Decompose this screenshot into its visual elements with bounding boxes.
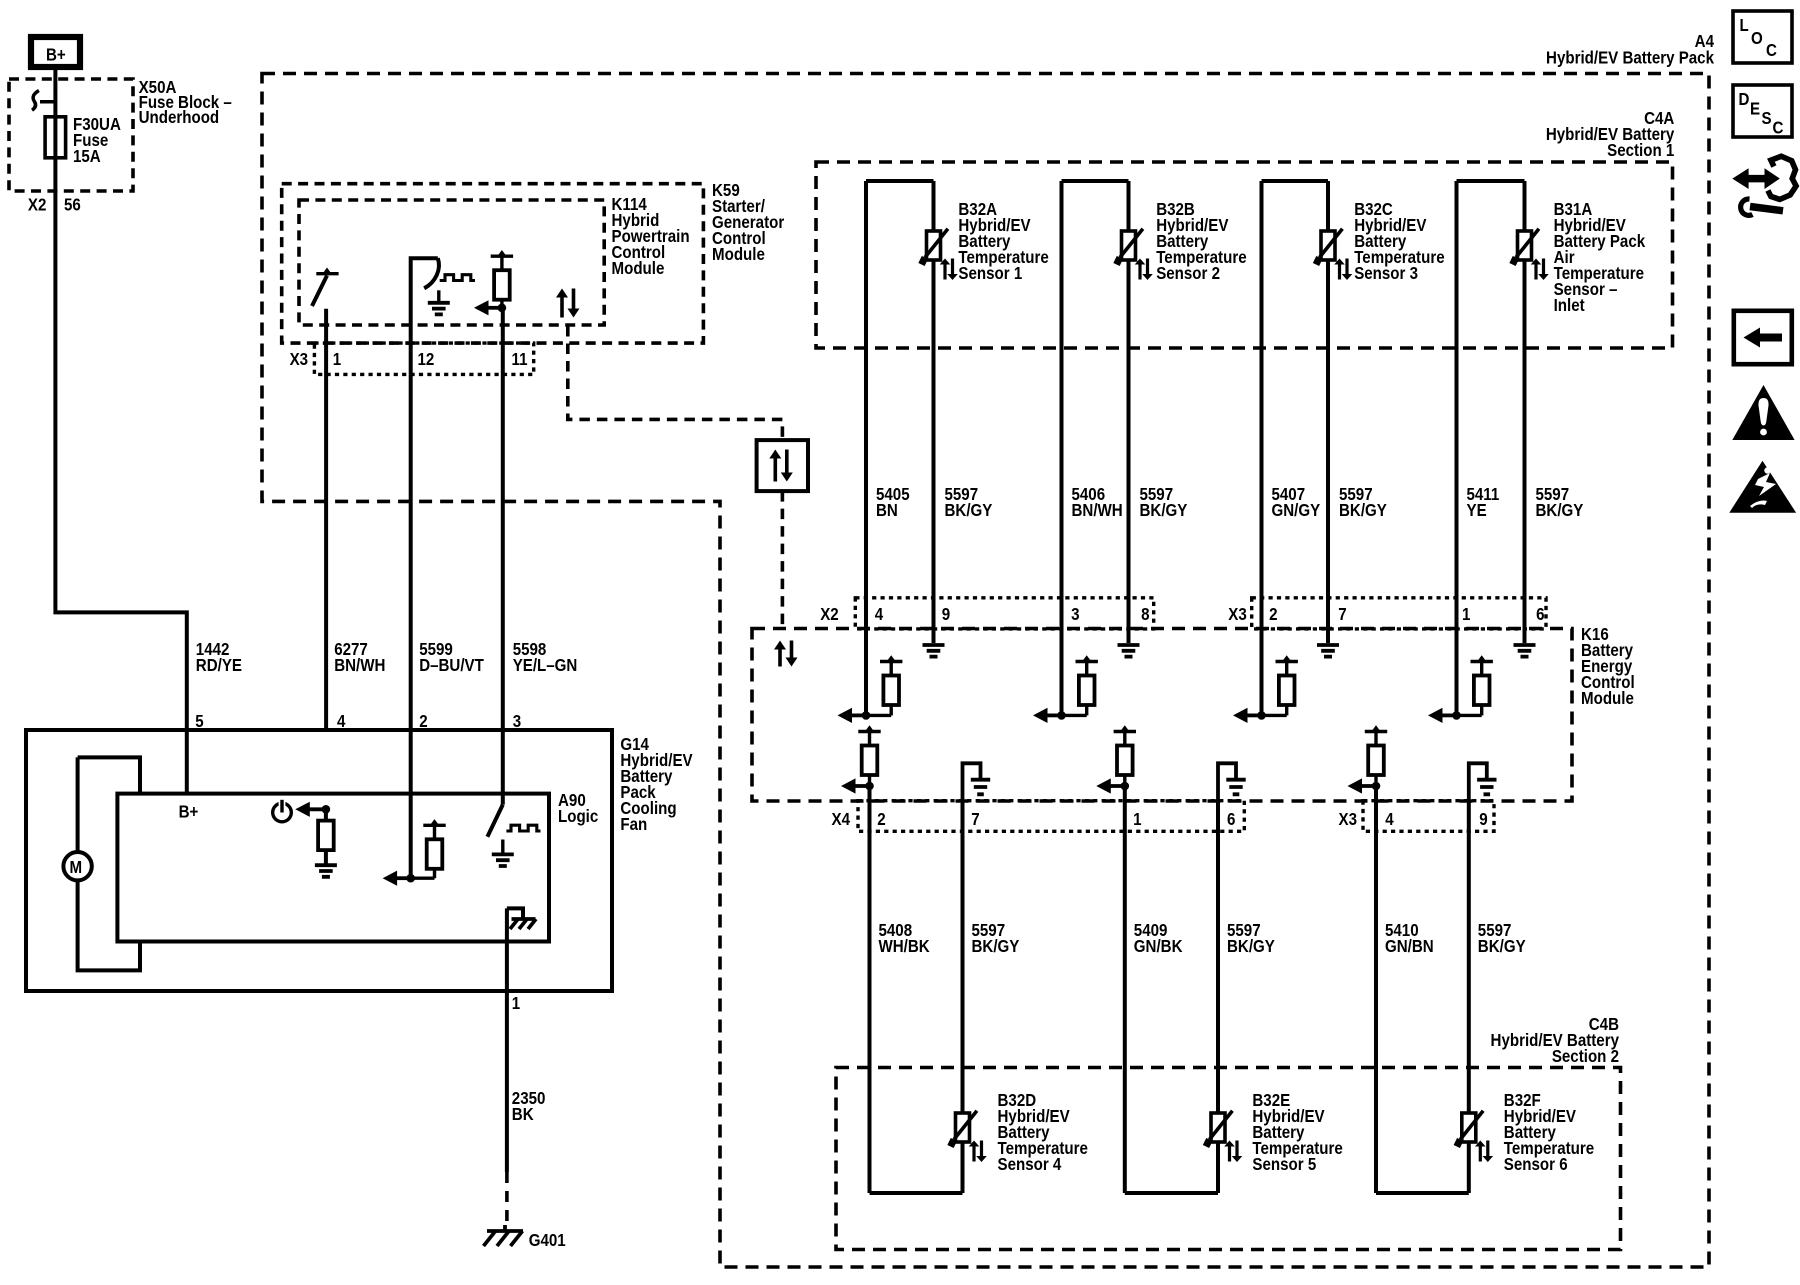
svg-text:Module: Module (612, 258, 665, 279)
label wire 5597 BK/GY (B31A return) (1536, 484, 1584, 521)
connector X3 pin row of K114 (314, 343, 533, 374)
svg-text:D: D (1739, 89, 1750, 110)
wire 5599 from K114 pin 12 to G14 pin 2 (409, 374, 413, 730)
battery section C4A dashed box (816, 162, 1673, 348)
K16 output circuit for B32F (1348, 725, 1388, 793)
K16 input circuit for B32A (838, 655, 903, 723)
svg-text:X3: X3 (1228, 604, 1246, 625)
K16 bottom pin labels 2 7 (877, 809, 979, 830)
K16 ground hook for B32E return (1218, 763, 1246, 800)
airflow arrows of B32D (969, 1141, 987, 1163)
battery positive voltage terminal B+ (31, 37, 80, 67)
svg-text:Sensor 1: Sensor 1 (958, 263, 1022, 284)
serial data arrows inside K114 (556, 289, 580, 318)
back arrow box (1734, 311, 1792, 364)
svg-text:2: 2 (1269, 604, 1277, 625)
connector X2 pin row of K16 (top left) (855, 598, 1153, 629)
K16 pin labels 2 7 (1269, 604, 1347, 625)
label wire 5599 D-BU/VT (419, 639, 484, 676)
K16 output circuit for B32E (1096, 725, 1136, 793)
svg-text:E: E (1750, 98, 1760, 119)
svg-text:B+: B+ (46, 44, 66, 65)
svg-text:GN/BK: GN/BK (1134, 936, 1183, 957)
label wire 2350 BK (512, 1088, 546, 1125)
thermistor element of B32E (1206, 1111, 1232, 1147)
svg-text:Module: Module (712, 244, 765, 265)
label X50A Fuse Block - Underhood (139, 77, 232, 128)
A90 resistor to ground on 6277 input (315, 809, 337, 877)
svg-text:Sensor 4: Sensor 4 (998, 1154, 1063, 1175)
svg-text:BK: BK (512, 1104, 534, 1125)
label wire 5411 YE (1467, 484, 1500, 521)
svg-text:1: 1 (1133, 809, 1141, 830)
temperature sensor B32E loop wiring (1125, 786, 1218, 1193)
label A90 Logic (558, 790, 598, 827)
label wire 5410 GN/BN (1385, 920, 1434, 957)
svg-text:Fan: Fan (620, 814, 647, 835)
K16 output circuit for B32D (841, 725, 881, 793)
svg-text:11: 11 (512, 349, 528, 370)
K16 pin labels 3 8 (1071, 604, 1149, 625)
label wire 5409 GN/BK (1134, 920, 1183, 957)
serial data arrows inside K16 (774, 641, 798, 667)
svg-text:X4: X4 (832, 809, 851, 830)
label B32A (958, 199, 1048, 284)
label X4 (832, 809, 851, 830)
K16 ground hook for B32F return (1469, 763, 1497, 800)
temperature sensor B32D loop wiring (870, 786, 963, 1193)
label B31A (1554, 199, 1646, 316)
svg-text:BK/GY: BK/GY (1140, 500, 1188, 521)
svg-text:BK/GY: BK/GY (1478, 936, 1526, 957)
connector X3 pin row of K16 (bottom right) (1363, 801, 1494, 832)
K114 internal pull-up and input (pin 11) (474, 250, 513, 315)
svg-text:O: O (1751, 28, 1763, 49)
svg-text:D–BU/VT: D–BU/VT (419, 655, 484, 676)
svg-text:C: C (1766, 40, 1777, 61)
svg-text:X3: X3 (290, 349, 308, 370)
svg-text:7: 7 (971, 809, 979, 830)
thermistor element of B31A (1513, 229, 1539, 265)
wire 5598 from K114 pin 11 to G14 pin 3 (501, 308, 505, 730)
K16 pin labels 1 6 (1462, 604, 1545, 625)
label K16 Battery Energy Control Module (1581, 624, 1635, 709)
thermistor element of B32D (951, 1111, 977, 1147)
DESC reference box (1733, 85, 1792, 138)
module G14 box (26, 730, 612, 991)
svg-text:YE/L–GN: YE/L–GN (513, 655, 578, 676)
svg-text:9: 9 (942, 604, 950, 625)
svg-text:BN/WH: BN/WH (1072, 500, 1123, 521)
svg-text:X3: X3 (1339, 809, 1357, 830)
wire 5599 inside G14 (409, 730, 413, 878)
svg-text:Sensor 2: Sensor 2 (1156, 263, 1220, 284)
label X3 (top right row) (1228, 604, 1246, 625)
jump-to-procedure icon (double arrow and wrench) (1732, 156, 1796, 215)
label B32E (1252, 1090, 1342, 1175)
dashed wire stub to ground G401 (505, 1172, 509, 1228)
battery section C4B dashed box (836, 1068, 1621, 1250)
wire 6277 from K114 pin 1 to G14 pin 4 (324, 309, 328, 730)
svg-text:BK/GY: BK/GY (1227, 936, 1275, 957)
svg-text:6: 6 (1536, 604, 1544, 625)
label B32F (1504, 1090, 1594, 1175)
airflow arrows of B31A (1531, 259, 1549, 281)
serial data dashed wire from K114 to data link connector (568, 326, 783, 440)
label wire 5597 BK/GY (B32A return) (945, 484, 993, 521)
svg-text:Inlet: Inlet (1554, 295, 1585, 316)
label B32D (998, 1090, 1088, 1175)
wire 2350 from A90 to G14 pin 1 (505, 908, 509, 991)
airflow arrows of B32C (1334, 259, 1352, 281)
svg-text:WH/BK: WH/BK (879, 936, 930, 957)
label G14 pin 1 (512, 993, 520, 1014)
electrostatic discharge triangle icon (1729, 461, 1796, 513)
svg-text:S: S (1762, 108, 1772, 129)
svg-text:Logic: Logic (558, 806, 598, 827)
temperature sensor B32A loop wiring (866, 181, 934, 715)
svg-text:L: L (1740, 15, 1749, 36)
thermistor element of B32F (1457, 1111, 1483, 1147)
label wire 5597 BK/GY (B32E return) (1227, 920, 1275, 957)
K16 bottom pin labels 4 9 (1385, 809, 1487, 830)
label wire 5406 BN/WH (1072, 484, 1123, 521)
K16 input circuit for B32C (1233, 655, 1298, 723)
airflow arrows of B32B (1135, 259, 1153, 281)
label X2 (820, 604, 838, 625)
svg-text:BK/GY: BK/GY (945, 500, 993, 521)
fuse-block terminal clip symbol (32, 91, 55, 111)
svg-text:7: 7 (1338, 604, 1346, 625)
svg-text:15A: 15A (73, 146, 101, 167)
svg-text:3: 3 (1071, 604, 1079, 625)
K16 input circuit for B32B (1033, 655, 1098, 723)
battery pack A4 dashed outline box (262, 74, 1709, 1268)
K16 pin labels 4 9 (875, 604, 951, 625)
svg-text:Hybrid/EV Battery Pack: Hybrid/EV Battery Pack (1546, 47, 1715, 68)
svg-text:4: 4 (875, 604, 884, 625)
airflow arrows of B32A (940, 259, 958, 281)
K114 internal switch driver for fan power (pin 1) (312, 268, 339, 307)
fan motor M (63, 852, 91, 880)
svg-text:YE: YE (1467, 500, 1487, 521)
A90 arrow into power control (295, 802, 330, 817)
airflow arrows of B32E (1224, 1141, 1242, 1163)
fuse block X50A dashed box (9, 79, 133, 191)
svg-text:56: 56 (64, 194, 81, 215)
label K114 Hybrid Powertrain Control Module (612, 194, 690, 279)
K16 ground termination for B32B return (1118, 645, 1140, 657)
svg-text:12: 12 (418, 349, 435, 370)
svg-text:Sensor 3: Sensor 3 (1354, 263, 1418, 284)
svg-text:GN/BN: GN/BN (1385, 936, 1434, 957)
label B32C (1354, 199, 1444, 284)
svg-text:RD/YE: RD/YE (196, 655, 242, 676)
label A4 Hybrid/EV Battery Pack (1546, 31, 1715, 68)
label B32B (1156, 199, 1246, 284)
thermistor element of B32C (1316, 229, 1342, 265)
label wire 5405 BN (876, 484, 910, 521)
label wire 5598 YE/L-GN (513, 639, 578, 676)
label wire 1442 RD/YE (196, 639, 242, 676)
svg-text:GN/GY: GN/GY (1272, 500, 1321, 521)
label wire 5597 BK/GY (B32F return) (1478, 920, 1526, 957)
svg-text:Section 2: Section 2 (1552, 1046, 1619, 1067)
svg-text:1: 1 (333, 349, 341, 370)
K16 ground termination for B32C return (1317, 645, 1339, 657)
svg-text:BN: BN (876, 500, 898, 521)
K16 ground termination for B32A return (923, 645, 945, 657)
label C4B Hybrid/EV Battery Section 2 (1491, 1014, 1620, 1067)
label C4A Hybrid/EV Battery Section 1 (1546, 108, 1675, 161)
temperature sensor B32B loop wiring (1062, 181, 1129, 715)
svg-text:1: 1 (512, 993, 520, 1014)
label wire 5407 GN/GY (1272, 484, 1321, 521)
K114 internal PWM driver (pin 12) (411, 258, 475, 374)
svg-text:X2: X2 (820, 604, 838, 625)
label wire 5597 BK/GY (B32D return) (972, 920, 1020, 957)
LOC reference box (1733, 11, 1792, 63)
A90 chassis ground on pin 1 output (507, 908, 536, 929)
label G401 (529, 1230, 566, 1251)
G14 pin labels 5 4 2 3 (195, 711, 521, 732)
fuse F30UA 15A (45, 117, 66, 158)
K16 ground termination for B31A return (1514, 645, 1536, 657)
thermistor element of B32A (922, 229, 948, 265)
label wire 5597 BK/GY (B32C return) (1339, 484, 1387, 521)
label wire 6277 BN/WH (334, 639, 385, 676)
label X3 (bottom right row) (1339, 809, 1357, 830)
svg-text:Module: Module (1581, 688, 1634, 709)
svg-text:8: 8 (1141, 604, 1149, 625)
serial data dashed wire from data link connector to K16 (781, 491, 785, 628)
K16 ground hook for B32D return (963, 763, 991, 800)
A90 input arrow on 5599 (pin 2) (383, 871, 415, 886)
thermistor element of B32B (1117, 229, 1143, 265)
svg-text:X2: X2 (28, 194, 46, 215)
label wire 5597 BK/GY (B32B return) (1140, 484, 1188, 521)
A90 pull-up resistor on 5599 (411, 819, 446, 878)
module K16 dashed box (752, 629, 1572, 802)
svg-text:Section 1: Section 1 (1607, 140, 1674, 161)
module K59 dashed box (282, 184, 704, 343)
A90 PWM switch to ground on 5598 (pin 3) (487, 730, 540, 866)
connector X2 pin 56 labels (28, 194, 81, 215)
svg-text:9: 9 (1479, 809, 1487, 830)
svg-text:Underhood: Underhood (139, 107, 220, 128)
label wire 5408 WH/BK (879, 920, 930, 957)
temperature sensor B31A loop wiring (1457, 181, 1525, 715)
label K59 Starter/Generator Control Module (712, 180, 785, 265)
connector X3 pin row of K16 (top right) (1252, 598, 1546, 629)
svg-text:BN/WH: BN/WH (334, 655, 385, 676)
svg-text:Sensor 6: Sensor 6 (1504, 1154, 1568, 1175)
wire 2350 BK below G14 (505, 991, 509, 1172)
svg-text:2: 2 (877, 809, 885, 830)
connector X4 pin row of K16 (bottom left) (858, 801, 1244, 832)
svg-text:BK/GY: BK/GY (972, 936, 1020, 957)
svg-text:6: 6 (1227, 809, 1235, 830)
svg-text:BK/GY: BK/GY (1339, 500, 1387, 521)
module K114 dashed box (299, 200, 604, 325)
data link connector symbol (box with up/down arrows) (757, 440, 808, 491)
K16 input circuit for B31A (1428, 655, 1493, 723)
label G14 Hybrid/EV Battery Pack Cooling Fan (620, 734, 692, 835)
svg-text:M: M (70, 857, 83, 878)
label X3 and pins 1 12 11 (290, 349, 528, 370)
caution triangle icon (1732, 385, 1794, 440)
temperature sensor B32F loop wiring (1376, 786, 1469, 1193)
airflow arrows of B32F (1475, 1141, 1493, 1163)
wire from B+ through fuse block down and right to G14 pin 5 (55, 70, 186, 730)
svg-text:1: 1 (1462, 604, 1470, 625)
ground G401 symbol (484, 1225, 524, 1246)
svg-text:Sensor 5: Sensor 5 (1252, 1154, 1316, 1175)
svg-text:4: 4 (1385, 809, 1394, 830)
K16 bottom pin labels 1 6 (1133, 809, 1235, 830)
label B+ pin inside A90 (179, 801, 199, 822)
svg-text:B+: B+ (179, 801, 199, 822)
svg-text:BK/GY: BK/GY (1536, 500, 1584, 521)
A90 power control symbol (pin 4) (273, 798, 292, 822)
fan motor M leads (78, 757, 140, 970)
svg-text:G401: G401 (529, 1230, 566, 1251)
wire 1442 inside G14 to A90 B+ input (185, 730, 189, 794)
module A90 logic box (117, 794, 549, 942)
temperature sensor B32C loop wiring (1262, 181, 1329, 715)
label F30UA Fuse 15A (73, 114, 121, 167)
svg-text:C: C (1773, 117, 1784, 138)
